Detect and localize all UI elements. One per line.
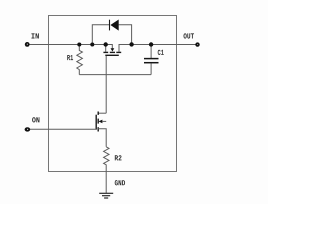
terminal ON (25, 127, 31, 131)
transistor Q2 channel segment middle (97, 119, 99, 124)
wire OUT rail (119, 45, 198, 52)
capacitor C1 bottom plate (144, 62, 159, 64)
transistor Q2 NMOS drain lead (99, 112, 107, 114)
diode D1 cathode bar (109, 20, 111, 31)
transistor Q1 source bar (103, 51, 108, 53)
transistor Q1 body bar (110, 51, 115, 53)
transistor Q1 body arrow (111, 48, 115, 51)
wire Q2 body lead (102, 120, 106, 122)
transistor Q1 drain bar (116, 51, 121, 53)
resistor R1 (77, 45, 83, 75)
node junction dot diode right / Q1 drain (129, 42, 133, 46)
wire diode loop (92, 25, 109, 45)
label ON (32, 117, 39, 122)
wire IN rail (29, 45, 112, 49)
label R1 (67, 55, 73, 60)
terminal OUT (195, 42, 199, 46)
label IN (31, 33, 38, 38)
wire gate node horizontal R1 to C1 (79, 74, 151, 76)
transistor Q2 gate bar (95, 115, 97, 130)
ground symbol (99, 192, 113, 194)
transistor Q2 channel segment top (97, 112, 99, 115)
resistor R2 (104, 147, 109, 193)
label GND (115, 180, 125, 185)
node junction dot C1 (149, 42, 153, 46)
capacitor C1 bottom lead (150, 63, 152, 74)
wire ON input to Q2 gate (30, 128, 96, 130)
capacitor C1 top lead (150, 45, 152, 59)
terminal IN (25, 42, 30, 47)
IC outline box (49, 16, 177, 172)
label C1 (158, 50, 164, 55)
op: PMOS pass transistor Q1 source stub (105, 45, 107, 52)
wire Q1 gate to NMOS drain (105, 56, 107, 113)
capacitor C1 top plate (144, 58, 159, 60)
node junction dot diode left (90, 43, 94, 47)
transistor Q1 gate bar (105, 54, 119, 56)
label R2 (115, 155, 122, 160)
diode D1 (110, 20, 118, 31)
label OUT (184, 33, 195, 38)
transistor Q2 channel segment bottom (97, 127, 99, 131)
wire Q2 source lead (98, 129, 106, 147)
transistor Q2 body arrow (99, 120, 103, 124)
node junction dot R1 top (77, 43, 81, 47)
node junction dot Q1 source (104, 42, 108, 46)
